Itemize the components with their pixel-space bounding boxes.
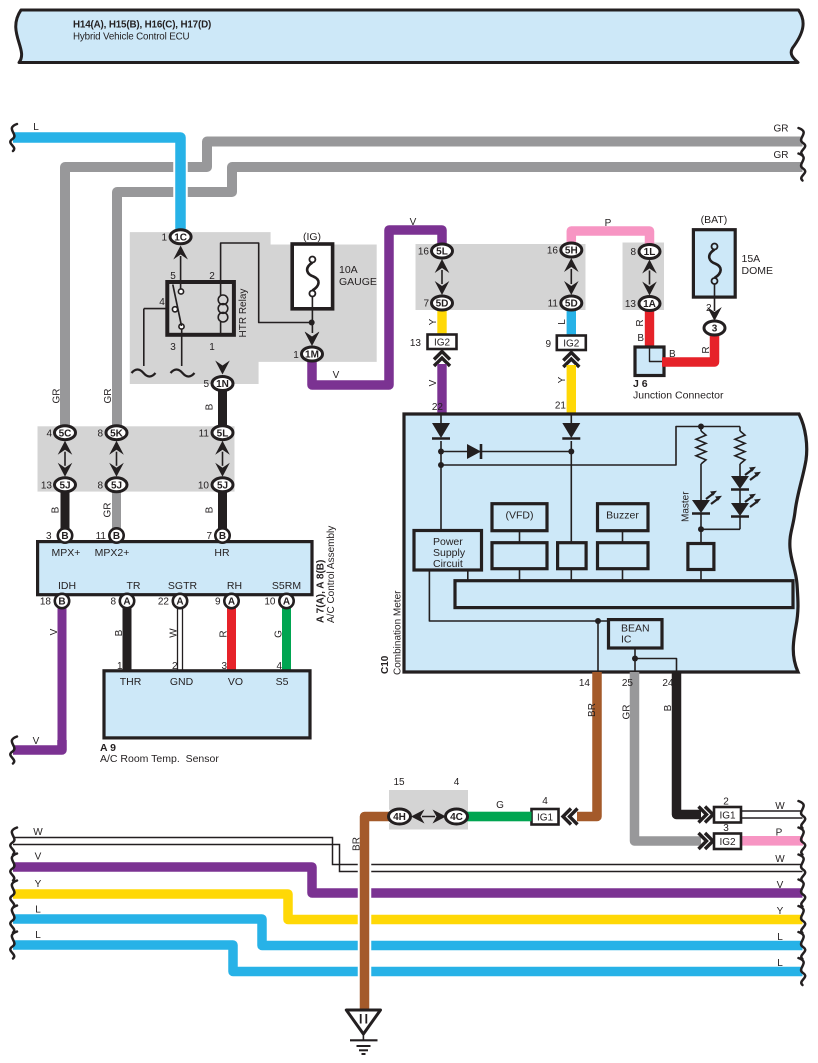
svg-text:A: A [176,597,183,608]
svg-text:Y: Y [428,318,439,325]
svg-text:22: 22 [432,402,444,413]
svg-text:Circuit: Circuit [433,558,463,570]
svg-text:Hybrid Vehicle Control ECU: Hybrid Vehicle Control ECU [73,32,190,43]
svg-text:L: L [557,319,568,325]
svg-text:RH: RH [227,580,242,592]
svg-text:V: V [33,736,40,747]
svg-text:R: R [219,630,230,637]
svg-text:P: P [605,218,612,229]
svg-text:(IG): (IG) [303,231,321,243]
svg-text:B: B [205,403,216,410]
svg-text:MPX2+: MPX2+ [95,547,130,559]
svg-text:13: 13 [625,299,637,310]
svg-text:18: 18 [40,597,52,608]
svg-text:5D: 5D [565,299,578,310]
svg-text:IG1: IG1 [719,810,736,821]
svg-text:B: B [58,597,65,608]
svg-text:VO: VO [228,676,243,688]
svg-text:5L: 5L [217,428,229,439]
svg-text:4: 4 [542,796,548,807]
svg-text:3: 3 [723,823,729,834]
svg-text:GR: GR [103,389,114,404]
svg-text:11: 11 [199,428,210,439]
svg-text:7: 7 [206,531,212,542]
svg-text:P: P [776,828,783,839]
svg-text:TR: TR [127,580,141,592]
svg-text:22: 22 [158,597,170,608]
svg-text:A: A [123,597,130,608]
svg-text:G: G [496,800,504,811]
svg-text:14: 14 [579,678,591,689]
svg-text:V: V [410,217,417,228]
svg-text:3: 3 [170,342,176,353]
svg-text:J 6: J 6 [633,378,648,390]
svg-text:2: 2 [706,303,712,314]
svg-text:L: L [35,930,41,941]
svg-text:IG2: IG2 [434,337,451,348]
svg-text:13: 13 [41,480,53,491]
svg-text:5H: 5H [565,246,578,257]
svg-text:1: 1 [209,342,215,353]
svg-text:5J: 5J [59,480,70,491]
svg-text:Master: Master [681,491,692,522]
svg-text:DOME: DOME [742,265,774,277]
svg-text:21: 21 [555,401,567,412]
svg-text:3: 3 [46,531,52,542]
svg-text:4: 4 [159,297,165,308]
svg-text:W: W [33,827,43,838]
svg-text:4: 4 [454,777,460,788]
svg-text:IG2: IG2 [719,837,736,848]
svg-text:L: L [777,932,783,943]
svg-text:Combination Meter: Combination Meter [393,590,404,675]
svg-text:10A: 10A [339,264,358,276]
svg-text:8: 8 [97,428,103,439]
svg-text:5: 5 [203,379,209,390]
svg-text:9: 9 [215,597,221,608]
svg-text:BR: BR [587,703,598,717]
svg-text:B: B [61,531,68,542]
svg-text:24: 24 [662,678,674,689]
svg-text:7: 7 [423,299,429,310]
svg-text:Y: Y [777,906,784,917]
svg-text:THR: THR [120,676,142,688]
svg-text:5J: 5J [217,480,228,491]
svg-text:IG1: IG1 [537,812,554,823]
svg-text:5K: 5K [110,428,124,439]
svg-text:GR: GR [103,503,114,518]
svg-text:S5RM: S5RM [272,580,301,592]
svg-text:9: 9 [545,339,551,350]
svg-text:B: B [114,629,125,636]
svg-text:1C: 1C [174,232,187,243]
svg-text:1L: 1L [644,247,656,258]
svg-text:HTR Relay: HTR Relay [238,289,249,338]
svg-text:S5: S5 [276,676,289,688]
svg-text:GR: GR [774,150,789,161]
svg-text:GAUGE: GAUGE [339,276,377,288]
svg-text:IDH: IDH [58,580,76,592]
svg-text:R: R [701,346,712,353]
svg-text:B: B [113,531,120,542]
svg-text:B: B [663,704,674,711]
svg-text:GR: GR [622,705,633,720]
svg-text:C10: C10 [380,655,391,674]
svg-text:4C: 4C [450,812,463,823]
svg-text:Junction Connector: Junction Connector [633,390,724,402]
svg-text:4H: 4H [393,812,406,823]
svg-text:16: 16 [418,247,430,258]
svg-text:HR: HR [214,547,230,559]
svg-text:IC: IC [621,634,632,646]
svg-text:3: 3 [712,324,718,335]
svg-text:15: 15 [393,777,405,788]
svg-text:25: 25 [622,678,634,689]
svg-text:15A: 15A [742,253,761,265]
svg-text:L: L [35,905,41,916]
svg-text:Y: Y [557,376,568,383]
svg-text:10: 10 [198,480,210,491]
svg-text:11: 11 [96,531,107,542]
svg-text:8: 8 [110,597,116,608]
svg-text:B: B [219,531,226,542]
svg-text:5J: 5J [111,480,122,491]
svg-text:5C: 5C [59,428,72,439]
svg-text:5: 5 [170,271,176,282]
svg-text:1: 1 [293,350,299,361]
svg-text:B: B [205,506,216,513]
svg-text:Buzzer: Buzzer [606,510,639,522]
svg-text:W: W [169,628,180,638]
svg-text:GR: GR [52,389,63,404]
svg-text:A/C Control Assembly: A/C Control Assembly [326,526,337,623]
svg-text:B: B [637,333,644,344]
svg-text:8: 8 [97,480,103,491]
svg-text:(VFD): (VFD) [506,510,534,522]
svg-text:5D: 5D [436,299,449,310]
svg-text:4: 4 [46,428,52,439]
svg-text:V: V [35,852,42,863]
svg-text:2: 2 [209,271,215,282]
svg-text:MPX+: MPX+ [52,547,81,559]
svg-text:IG2: IG2 [563,338,580,349]
svg-text:H14(A), H15(B), H16(C), H17(D): H14(A), H15(B), H16(C), H17(D) [73,20,211,31]
svg-text:1M: 1M [305,350,319,361]
svg-text:W: W [775,854,785,865]
svg-text:V: V [428,379,439,386]
svg-text:L: L [33,122,39,133]
svg-text:W: W [775,801,785,812]
svg-text:Y: Y [35,879,42,890]
svg-text:1: 1 [161,233,167,244]
svg-text:A/C Room Temp. Sensor: A/C Room Temp. Sensor [100,753,219,765]
svg-text:B: B [51,506,62,513]
svg-text:A 7(A), A 8(B): A 7(A), A 8(B) [316,560,327,623]
svg-text:10: 10 [264,597,276,608]
svg-text:G: G [274,630,285,638]
svg-text:SGTR: SGTR [168,580,198,592]
svg-text:11: 11 [548,299,559,310]
svg-text:L: L [777,958,783,969]
svg-text:5L: 5L [436,247,448,258]
svg-text:GND: GND [170,676,194,688]
svg-text:R: R [635,319,646,326]
svg-text:A: A [228,597,235,608]
svg-text:BR: BR [352,837,363,851]
svg-text:A: A [283,597,290,608]
svg-text:V: V [49,628,60,635]
svg-text:1A: 1A [643,299,656,310]
svg-text:16: 16 [547,246,559,257]
svg-text:GR: GR [774,124,789,135]
svg-text:(BAT): (BAT) [701,214,728,226]
svg-text:2: 2 [723,797,729,808]
svg-text:V: V [777,880,784,891]
svg-text:13: 13 [410,338,422,349]
svg-text:1N: 1N [216,379,229,390]
svg-text:V: V [333,370,340,381]
svg-text:8: 8 [630,247,636,258]
